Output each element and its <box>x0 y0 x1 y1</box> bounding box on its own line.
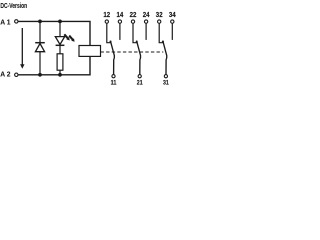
svg-text:14: 14 <box>117 10 125 19</box>
contact arm and common wire 31 <box>163 41 167 75</box>
svg-text:34: 34 <box>169 10 177 19</box>
svg-text:21: 21 <box>137 80 143 87</box>
wire diode branch top <box>39 21 41 42</box>
terminal 12 <box>105 20 108 23</box>
terminal 11 <box>112 75 115 78</box>
wire NC 32 with seat <box>159 23 164 42</box>
wire LED branch top <box>59 21 61 36</box>
wire LED to resistor <box>59 45 61 54</box>
svg-text:32: 32 <box>156 10 163 19</box>
terminal 31 <box>164 75 167 78</box>
svg-text:24: 24 <box>143 10 151 19</box>
polarity arrow A1 to A2 <box>20 28 24 69</box>
svg-text:22: 22 <box>130 10 137 19</box>
mechanical linkage (dashed) <box>101 51 164 53</box>
LED emission arrow 1 <box>64 34 70 41</box>
LED indicator (anode up) <box>55 37 64 46</box>
contact point 1 <box>109 40 111 42</box>
LED emission arrow 2 <box>68 35 74 42</box>
node junction A1-LED <box>58 20 62 24</box>
contact arm and common wire 11 <box>110 41 114 75</box>
terminal 14 <box>118 20 121 23</box>
contact point 2 <box>136 40 138 42</box>
terminal 22 <box>131 20 134 23</box>
node junction A2-LED <box>58 73 62 77</box>
contact arm and common wire 21 <box>137 41 141 75</box>
terminal 21 <box>138 75 141 78</box>
svg-text:A 1: A 1 <box>0 17 10 26</box>
node junction A2-diode <box>38 73 42 77</box>
wire NO 24 <box>145 23 147 40</box>
terminal 24 <box>144 20 147 23</box>
wire NC 22 with seat <box>133 23 138 42</box>
resistor R1 <box>57 54 63 70</box>
contact point 3 <box>162 40 164 42</box>
node junction A1-diode <box>38 20 42 24</box>
terminal A1 <box>15 20 18 23</box>
wire diode branch bottom <box>39 52 41 75</box>
svg-text:A 2: A 2 <box>0 70 10 79</box>
svg-text:DC-Version: DC-Version <box>0 1 27 10</box>
diode V1 (freewheeling, cathode up) <box>35 43 45 52</box>
svg-text:12: 12 <box>103 10 110 19</box>
terminal 32 <box>158 20 161 23</box>
relay coil K1 <box>79 46 101 57</box>
terminal A2 <box>15 73 18 76</box>
terminal 34 <box>171 20 174 23</box>
wire NO 14 <box>119 23 121 40</box>
wire resistor to A2 rail <box>59 70 61 75</box>
wire NO 34 <box>171 23 173 40</box>
wire NC 12 with seat <box>107 23 112 42</box>
wire A1 rail <box>18 21 90 45</box>
wire A2 rail <box>18 56 90 74</box>
svg-text:11: 11 <box>111 80 117 87</box>
svg-text:31: 31 <box>163 80 169 87</box>
